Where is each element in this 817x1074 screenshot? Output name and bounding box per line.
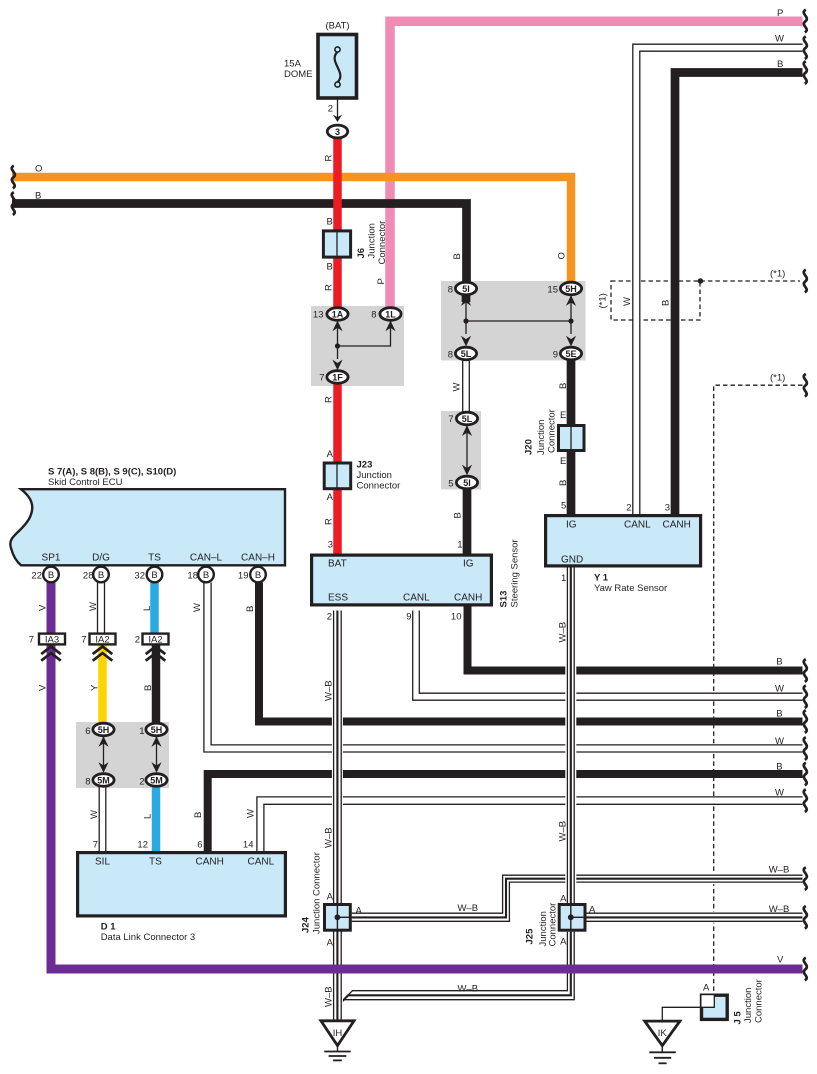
connector 5I-5H-5L-5E internal arrows and bus — [461, 295, 576, 346]
svg-text:O: O — [557, 252, 568, 259]
svg-text:V: V — [38, 684, 49, 691]
svg-text:DOME: DOME — [284, 69, 313, 80]
svg-text:Connector: Connector — [754, 979, 765, 1023]
connector block shading 5H/5M — [76, 722, 169, 788]
connector IA3 — [39, 634, 65, 661]
connector block shading 5L/5I — [441, 411, 481, 490]
svg-text:A: A — [327, 492, 334, 503]
svg-text:B: B — [203, 570, 209, 581]
Skid Control ECU box — [10, 489, 285, 565]
svg-text:B: B — [48, 570, 54, 581]
svg-text:W–B: W–B — [324, 827, 335, 848]
svg-text:5I: 5I — [463, 478, 471, 488]
svg-text:14: 14 — [243, 840, 254, 851]
svg-text:5: 5 — [448, 479, 453, 490]
wire W-B J24 to right edge with jog — [352, 875, 803, 921]
svg-text:B: B — [326, 216, 332, 227]
svg-text:8: 8 — [371, 310, 376, 321]
svg-text:D/G: D/G — [92, 553, 110, 564]
svg-text:O: O — [35, 164, 42, 175]
svg-text:IG: IG — [463, 559, 474, 570]
svg-text:13: 13 — [313, 310, 324, 321]
svg-text:1: 1 — [139, 726, 144, 737]
wire break right B top — [804, 61, 807, 84]
connector 5L lower — [456, 412, 477, 425]
svg-text:W: W — [192, 603, 203, 612]
wire W 5L to 5L steering sensor feed — [463, 360, 470, 413]
label J25 Junction Connector — [525, 903, 559, 947]
Skid Control ECU pin 18 circled B — [198, 567, 214, 583]
svg-text:7: 7 — [93, 840, 98, 851]
svg-text:2: 2 — [135, 635, 140, 646]
connector 5L-5I internal arrows — [462, 425, 472, 475]
wire break right B3 — [804, 763, 807, 786]
svg-text:S13: S13 — [499, 591, 510, 608]
svg-text:B: B — [193, 812, 204, 818]
connector 5H-5M right internal arrows — [151, 736, 161, 773]
junction connector J25 — [559, 903, 586, 932]
wire R red node 3 to 1A — [333, 137, 342, 309]
svg-text:5L: 5L — [462, 414, 473, 424]
svg-text:W: W — [88, 602, 99, 611]
wire B Data Link Connector CANH to right edge (B3) — [208, 774, 803, 851]
D1 Data Link Connector 3 box — [78, 853, 286, 916]
ECU pin numbers — [31, 571, 248, 582]
svg-text:W: W — [775, 34, 784, 45]
svg-text:IH: IH — [333, 1028, 343, 1039]
svg-text:CANL: CANL — [403, 593, 430, 604]
svg-text:Steering Sensor: Steering Sensor — [510, 539, 521, 607]
svg-text:IK: IK — [658, 1028, 668, 1039]
svg-text:J 5: J 5 — [733, 1011, 744, 1025]
svg-text:2: 2 — [139, 777, 144, 788]
svg-text:Junction: Junction — [536, 420, 547, 455]
wire B 5I to 5L lower block — [462, 294, 471, 302]
svg-text:28: 28 — [83, 571, 94, 582]
svg-text:7: 7 — [319, 373, 324, 384]
wire break right B2 — [804, 710, 807, 733]
svg-text:W: W — [775, 684, 784, 695]
svg-text:Yaw Rate Sensor: Yaw Rate Sensor — [594, 583, 667, 594]
svg-text:Junction: Junction — [743, 988, 754, 1023]
connector 5L upper — [455, 347, 476, 360]
svg-text:J25: J25 — [525, 928, 536, 945]
ground IK — [645, 1021, 680, 1063]
svg-text:W–B: W–B — [558, 622, 569, 643]
svg-text:B: B — [453, 512, 464, 518]
Y1 box pin labels — [561, 520, 691, 566]
wire break right W-B J25 — [804, 906, 807, 929]
ECU box pin labels — [42, 553, 275, 564]
svg-text:Junction Connector: Junction Connector — [312, 852, 323, 934]
label Y1 Yaw Rate Sensor — [594, 573, 667, 595]
connector 5E — [560, 347, 581, 360]
connector 5H upper — [560, 282, 581, 295]
S13 box pin labels — [328, 559, 482, 604]
svg-text:J6: J6 — [356, 248, 367, 259]
svg-text:W–B: W–B — [769, 865, 790, 876]
svg-text:B: B — [661, 300, 672, 306]
svg-text:B: B — [777, 59, 783, 70]
svg-text:8: 8 — [448, 285, 453, 296]
wire W-B J25 down and left to IH ground run — [334, 932, 575, 1010]
wire break left black — [12, 192, 15, 215]
connector 5H left — [93, 723, 114, 736]
svg-text:Skid Control ECU: Skid Control ECU — [48, 477, 123, 488]
wire break right W top — [804, 36, 807, 59]
svg-text:5M: 5M — [150, 776, 163, 786]
svg-text:7: 7 — [81, 635, 86, 646]
svg-text:A: A — [327, 449, 334, 460]
svg-text:E: E — [560, 410, 566, 421]
connector 5I lower — [456, 476, 477, 489]
wire break right pink — [804, 10, 807, 33]
svg-text:5H: 5H — [565, 284, 577, 294]
svg-text:5H: 5H — [98, 725, 110, 735]
D1 pin numbers — [93, 840, 254, 851]
wire O orange from left edge down to 5H — [12, 177, 571, 283]
svg-text:Connector: Connector — [357, 481, 401, 492]
svg-text:V: V — [777, 955, 784, 966]
wire B 5E to J20 to Y1 IG pin 5 — [567, 360, 576, 515]
svg-text:P: P — [777, 8, 783, 19]
svg-text:B: B — [35, 191, 41, 202]
svg-text:2: 2 — [626, 503, 631, 514]
wire P pink from right edge down to 1L — [390, 21, 803, 308]
svg-text:18: 18 — [187, 571, 198, 582]
wire break right W2 — [804, 737, 807, 760]
svg-text:5I: 5I — [462, 284, 470, 294]
arrowhead into node 3 — [333, 115, 342, 122]
svg-text:W: W — [452, 383, 463, 392]
svg-text:R: R — [324, 396, 335, 403]
svg-text:3: 3 — [328, 540, 333, 551]
label Skid Control ECU title — [48, 467, 176, 489]
S13 Steering Sensor box — [312, 555, 492, 605]
svg-text:9: 9 — [553, 350, 558, 361]
svg-text:L: L — [142, 606, 153, 611]
svg-text:Y: Y — [90, 684, 101, 691]
svg-text:TS: TS — [148, 553, 161, 564]
wire B black IA2 to 5H — [152, 646, 161, 725]
svg-text:S 7(A), S 8(B), S 9(C), S10(D): S 7(A), S 8(B), S 9(C), S10(D) — [48, 467, 176, 478]
svg-text:J24: J24 — [301, 916, 312, 933]
svg-text:Y 1: Y 1 — [594, 573, 609, 584]
svg-text:CANL: CANL — [248, 857, 275, 868]
svg-text:CANH: CANH — [663, 520, 691, 531]
svg-text:5H: 5H — [151, 725, 163, 735]
D1 box pin labels — [95, 857, 275, 868]
svg-text:2: 2 — [328, 104, 333, 115]
ground IH — [321, 1021, 354, 1061]
svg-text:E: E — [560, 456, 566, 467]
svg-text:W–B: W–B — [458, 903, 479, 914]
svg-text:W–B: W–B — [558, 821, 569, 842]
shield dashed box around W and B wires (*1) — [611, 281, 700, 320]
svg-text:1: 1 — [561, 573, 566, 584]
svg-text:(*1): (*1) — [770, 269, 785, 280]
svg-text:8: 8 — [448, 350, 453, 361]
wire break right shield dashed — [804, 270, 807, 293]
wire W Skid Control ECU CAN-L to right edge (W2) — [204, 583, 803, 753]
svg-text:ESS: ESS — [328, 593, 348, 604]
svg-text:Junction: Junction — [357, 470, 392, 481]
wire B 5I to Steering Sensor IG pin 1 — [463, 488, 472, 554]
connector block shading 5I/5H/5L/5E — [441, 281, 586, 361]
fuse 15A DOME — [318, 35, 357, 99]
svg-text:3: 3 — [335, 127, 340, 137]
wire Y yellow IA2 to 5H — [98, 646, 107, 725]
svg-text:L: L — [143, 814, 154, 819]
svg-text:1L: 1L — [385, 310, 396, 320]
svg-text:CAN–H: CAN–H — [241, 553, 275, 564]
svg-text:1: 1 — [457, 540, 462, 551]
svg-text:6: 6 — [197, 840, 202, 851]
svg-text:W: W — [246, 809, 257, 818]
svg-text:2: 2 — [327, 612, 332, 623]
svg-text:A: A — [356, 906, 363, 917]
label D1 Data Link Connector 3 — [101, 922, 196, 944]
svg-text:32: 32 — [134, 571, 145, 582]
svg-text:W–B: W–B — [324, 986, 335, 1007]
svg-text:19: 19 — [238, 571, 249, 582]
svg-text:B: B — [776, 709, 782, 720]
svg-text:22: 22 — [31, 571, 42, 582]
svg-text:(BAT): (BAT) — [325, 21, 349, 32]
connector 5H right — [146, 723, 167, 736]
node 3 connector ellipse — [327, 125, 347, 138]
svg-text:5M: 5M — [97, 776, 110, 786]
svg-text:6: 6 — [85, 726, 90, 737]
Skid Control ECU pin 32 circled B — [147, 567, 163, 583]
wire B black from left edge down to 5I — [12, 204, 467, 284]
label J24 Junction Connector — [301, 852, 323, 934]
svg-text:A: A — [560, 937, 567, 948]
Y1 Yaw Rate Sensor box — [546, 516, 701, 566]
svg-text:W: W — [89, 810, 100, 819]
wire V violet Skid Control ECU SP1 to right edge — [51, 583, 803, 970]
connector 1L — [380, 308, 401, 321]
wire break right shield dashed lower — [804, 374, 807, 397]
wire W Skid Control ECU D/G to IA2 — [98, 583, 105, 634]
connector 1F — [327, 371, 348, 384]
svg-text:B: B — [143, 685, 154, 691]
svg-text:CANH: CANH — [454, 593, 482, 604]
wire B from right edge down to Y1 CANH pin 3 — [675, 73, 803, 515]
svg-text:W–B: W–B — [324, 680, 335, 701]
label J6 Junction Connector — [356, 221, 388, 265]
svg-text:W–B: W–B — [458, 984, 479, 995]
svg-text:IA3: IA3 — [45, 635, 59, 646]
svg-text:5: 5 — [561, 501, 566, 512]
svg-text:B: B — [776, 657, 782, 668]
svg-text:B: B — [245, 606, 256, 612]
svg-text:A: A — [703, 983, 710, 994]
svg-text:R: R — [324, 155, 335, 162]
svg-text:8: 8 — [85, 777, 90, 788]
svg-text:B: B — [558, 383, 569, 389]
junction connector J20 — [559, 424, 585, 452]
wire W 5M to Data Link Connector SIL — [99, 787, 106, 852]
svg-text:B: B — [151, 570, 157, 581]
svg-text:B: B — [255, 570, 261, 581]
svg-text:Data Link Connector 3: Data Link Connector 3 — [101, 932, 196, 943]
svg-text:9: 9 — [406, 612, 411, 623]
svg-text:15A: 15A — [284, 59, 302, 70]
wire W from right edge to Y1 CANL pin 2 — [633, 44, 803, 514]
svg-text:B: B — [98, 570, 104, 581]
svg-text:P: P — [376, 278, 387, 284]
svg-text:7: 7 — [29, 635, 34, 646]
svg-text:5E: 5E — [565, 349, 576, 359]
connector IA2 left — [90, 634, 116, 661]
svg-text:IA2: IA2 — [95, 635, 109, 646]
svg-text:A: A — [327, 938, 334, 949]
junction connector J24 — [325, 903, 352, 932]
svg-text:W: W — [622, 297, 633, 306]
svg-text:B: B — [558, 480, 569, 486]
svg-text:CAN–L: CAN–L — [190, 553, 223, 564]
svg-text:A: A — [327, 892, 334, 903]
svg-text:IA2: IA2 — [148, 635, 162, 646]
svg-text:SP1: SP1 — [42, 553, 61, 564]
svg-text:TS: TS — [149, 857, 162, 868]
svg-text:10: 10 — [451, 612, 462, 623]
svg-text:3: 3 — [665, 503, 670, 514]
connector IA2 right — [143, 634, 169, 661]
shield dashed line (*1) to J5 ground — [714, 385, 803, 993]
Skid Control ECU pin 22 circled B — [43, 567, 59, 583]
svg-text:1A: 1A — [332, 310, 344, 320]
junction dot on shield dashed line — [698, 278, 703, 283]
svg-text:B: B — [452, 253, 463, 259]
svg-text:CANH: CANH — [196, 857, 224, 868]
svg-text:Connector: Connector — [548, 903, 559, 947]
wire break left orange — [12, 166, 15, 189]
wire break right W1 — [804, 685, 807, 708]
wire W-B J25 to right edge — [586, 913, 803, 921]
svg-text:5L: 5L — [461, 349, 472, 359]
svg-text:D 1: D 1 — [101, 922, 117, 933]
svg-text:12: 12 — [137, 840, 148, 851]
svg-text:R: R — [324, 284, 335, 291]
svg-text:Connector: Connector — [377, 221, 388, 265]
connector 1A — [327, 308, 348, 321]
wire W Steering Sensor CANL to right edge (W1) — [413, 611, 803, 701]
connector block shading 1A/1L/1F — [311, 306, 404, 386]
svg-text:W–B: W–B — [769, 904, 790, 915]
junction connector J5 — [700, 994, 727, 1020]
connector 5M left — [93, 774, 114, 787]
svg-text:B: B — [776, 762, 782, 773]
connector 5H-5M left internal arrows — [98, 736, 108, 773]
svg-text:R: R — [324, 518, 335, 525]
svg-text:W: W — [775, 788, 784, 799]
wire break right B1 — [804, 659, 807, 682]
wire R red 1F to Steering Sensor BAT — [333, 383, 342, 554]
svg-text:IG: IG — [566, 520, 577, 531]
label J5 Junction Connector — [733, 979, 765, 1024]
svg-text:SIL: SIL — [95, 857, 110, 868]
wire W-B Steering Sensor ESS through J24 to IH ground — [334, 611, 342, 1022]
connector 1A-1L-1F internal arrows and bus — [332, 321, 395, 371]
wire W Data Link Connector CANL to right edge (W3) — [257, 797, 803, 851]
svg-text:J23: J23 — [357, 460, 373, 471]
wire from IK ground to J5 — [662, 1007, 700, 1021]
wire B Steering Sensor CANH to right edge (B1) — [468, 607, 803, 671]
label S13 Steering Sensor — [499, 539, 521, 607]
svg-text:A: A — [560, 894, 567, 905]
connector 5I upper — [455, 282, 476, 295]
wire W-B Y1 GND through J25 — [567, 568, 574, 932]
wire fuse lead to node 3 — [337, 99, 339, 121]
shield dashed lead to right edge (*1) — [700, 280, 800, 282]
svg-text:7: 7 — [448, 414, 453, 425]
svg-text:V: V — [38, 604, 49, 611]
wire B Skid Control ECU CAN-H to right edge (B2) — [259, 583, 803, 722]
Skid Control ECU pin 19 circled B — [250, 567, 266, 583]
svg-text:15: 15 — [547, 285, 558, 296]
wire break right W-B upper — [804, 867, 807, 890]
svg-text:GND: GND — [561, 555, 583, 566]
svg-text:Connector: Connector — [547, 409, 558, 453]
wire L blue Skid Control ECU TS to IA2 — [150, 583, 159, 634]
junction connector J6 — [323, 230, 350, 259]
wire labels right edge B1-W3 — [775, 657, 784, 799]
wire break right V — [804, 958, 807, 981]
connector 5M right — [146, 774, 167, 787]
svg-text:(*1): (*1) — [770, 373, 785, 384]
svg-text:Junction: Junction — [367, 223, 378, 258]
wire L blue 5M to Data Link Connector TS pin 12 — [152, 787, 161, 852]
Skid Control ECU pin 28 circled B — [93, 567, 109, 583]
svg-text:BAT: BAT — [328, 559, 347, 570]
wire break right W3 — [804, 789, 807, 812]
label J23 Junction Connector — [357, 460, 401, 492]
svg-text:J20: J20 — [524, 439, 535, 455]
svg-text:B: B — [326, 262, 332, 273]
svg-text:1F: 1F — [332, 373, 343, 383]
svg-text:(*1): (*1) — [598, 293, 609, 308]
svg-text:A: A — [589, 905, 596, 916]
svg-text:W: W — [775, 736, 784, 747]
label J20 Junction Connector — [524, 409, 558, 455]
svg-text:CANL: CANL — [624, 520, 651, 531]
junction connector J23 — [324, 462, 351, 491]
